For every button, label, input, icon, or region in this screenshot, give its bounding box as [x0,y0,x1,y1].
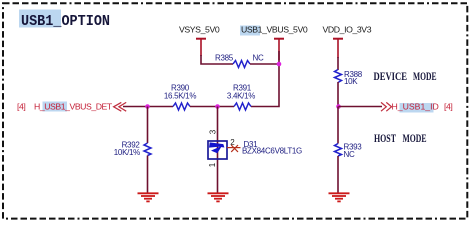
wire junction C to off-page connector [339,106,383,108]
svg-text:NC: NC [253,54,264,63]
power VDD_IO_3V3 [323,25,372,59]
resistor R391 [227,84,255,111]
node junction C [336,104,341,109]
wire junction B down through D31 to ground [217,107,219,194]
svg-text:H_USB1_ID: H_USB1_ID [392,102,439,112]
svg-text:VSYS_5V0: VSYS_5V0 [179,25,220,35]
svg-text:MODE: MODE [413,71,437,83]
diode D31 [208,129,302,167]
ground left [138,193,159,201]
svg-text:10K: 10K [344,77,358,86]
wire R388 to junction C [337,82,339,107]
svg-text:[4]: [4] [444,102,452,112]
wire VDD_IO_3V3 to R388 [337,57,339,70]
wire rail: connector to R390 [123,106,173,108]
svg-text:16.5K/1%: 16.5K/1% [164,92,196,101]
svg-text:BZX84C6V8LT1G: BZX84C6V8LT1G [242,147,302,156]
power VSYS_5V0 [179,25,220,57]
wire R390 to R391 [190,106,234,108]
svg-text:VDD_IO_3V3: VDD_IO_3V3 [323,25,372,35]
wire VSYS_5V0 to R385 [201,55,233,64]
ground middle [208,193,229,201]
wire R393 to ground [337,156,339,193]
wire USB1_VBUS_5V0 down to rail corner [251,51,279,107]
svg-text:DEVICE: DEVICE [374,71,408,83]
svg-text:NC: NC [344,150,355,159]
svg-text:3.4K/1%: 3.4K/1% [227,92,255,101]
wire R385 to junction [250,63,279,65]
title highlight box [19,10,61,28]
svg-text:USB1_VBUS_5V0: USB1_VBUS_5V0 [241,25,308,35]
svg-text:[4]: [4] [17,102,25,112]
node junction B [215,104,220,109]
wire R392 to ground [147,156,149,194]
resistor R393 [335,143,363,160]
resistor R392 [114,141,151,158]
wire junction A down to R392 [147,107,149,144]
off-page connector H_USB1_VBUS_DET [17,102,126,112]
power USB1_VBUS_5V0 [240,25,308,61]
resistor R390 [164,84,196,111]
pin 2 stub [227,147,241,149]
ground right [329,193,350,201]
svg-text:H_USB1_VBUS_DET: H_USB1_VBUS_DET [34,102,113,112]
svg-text:10K/1%: 10K/1% [114,148,140,157]
svg-text:R385: R385 [215,54,234,63]
no-connect X on pin 2 [231,145,238,152]
resistor R388 [335,70,363,87]
svg-text:MODE: MODE [403,133,427,145]
wire junction C to R393 [337,107,339,144]
svg-text:USB1_OPTION: USB1_OPTION [21,14,110,30]
off-page connector H_USB1_ID [381,102,452,113]
resistor R385 [215,54,264,68]
node junction A [145,104,150,109]
svg-text:HOST: HOST [374,133,396,145]
node junction VBUS [277,62,282,67]
